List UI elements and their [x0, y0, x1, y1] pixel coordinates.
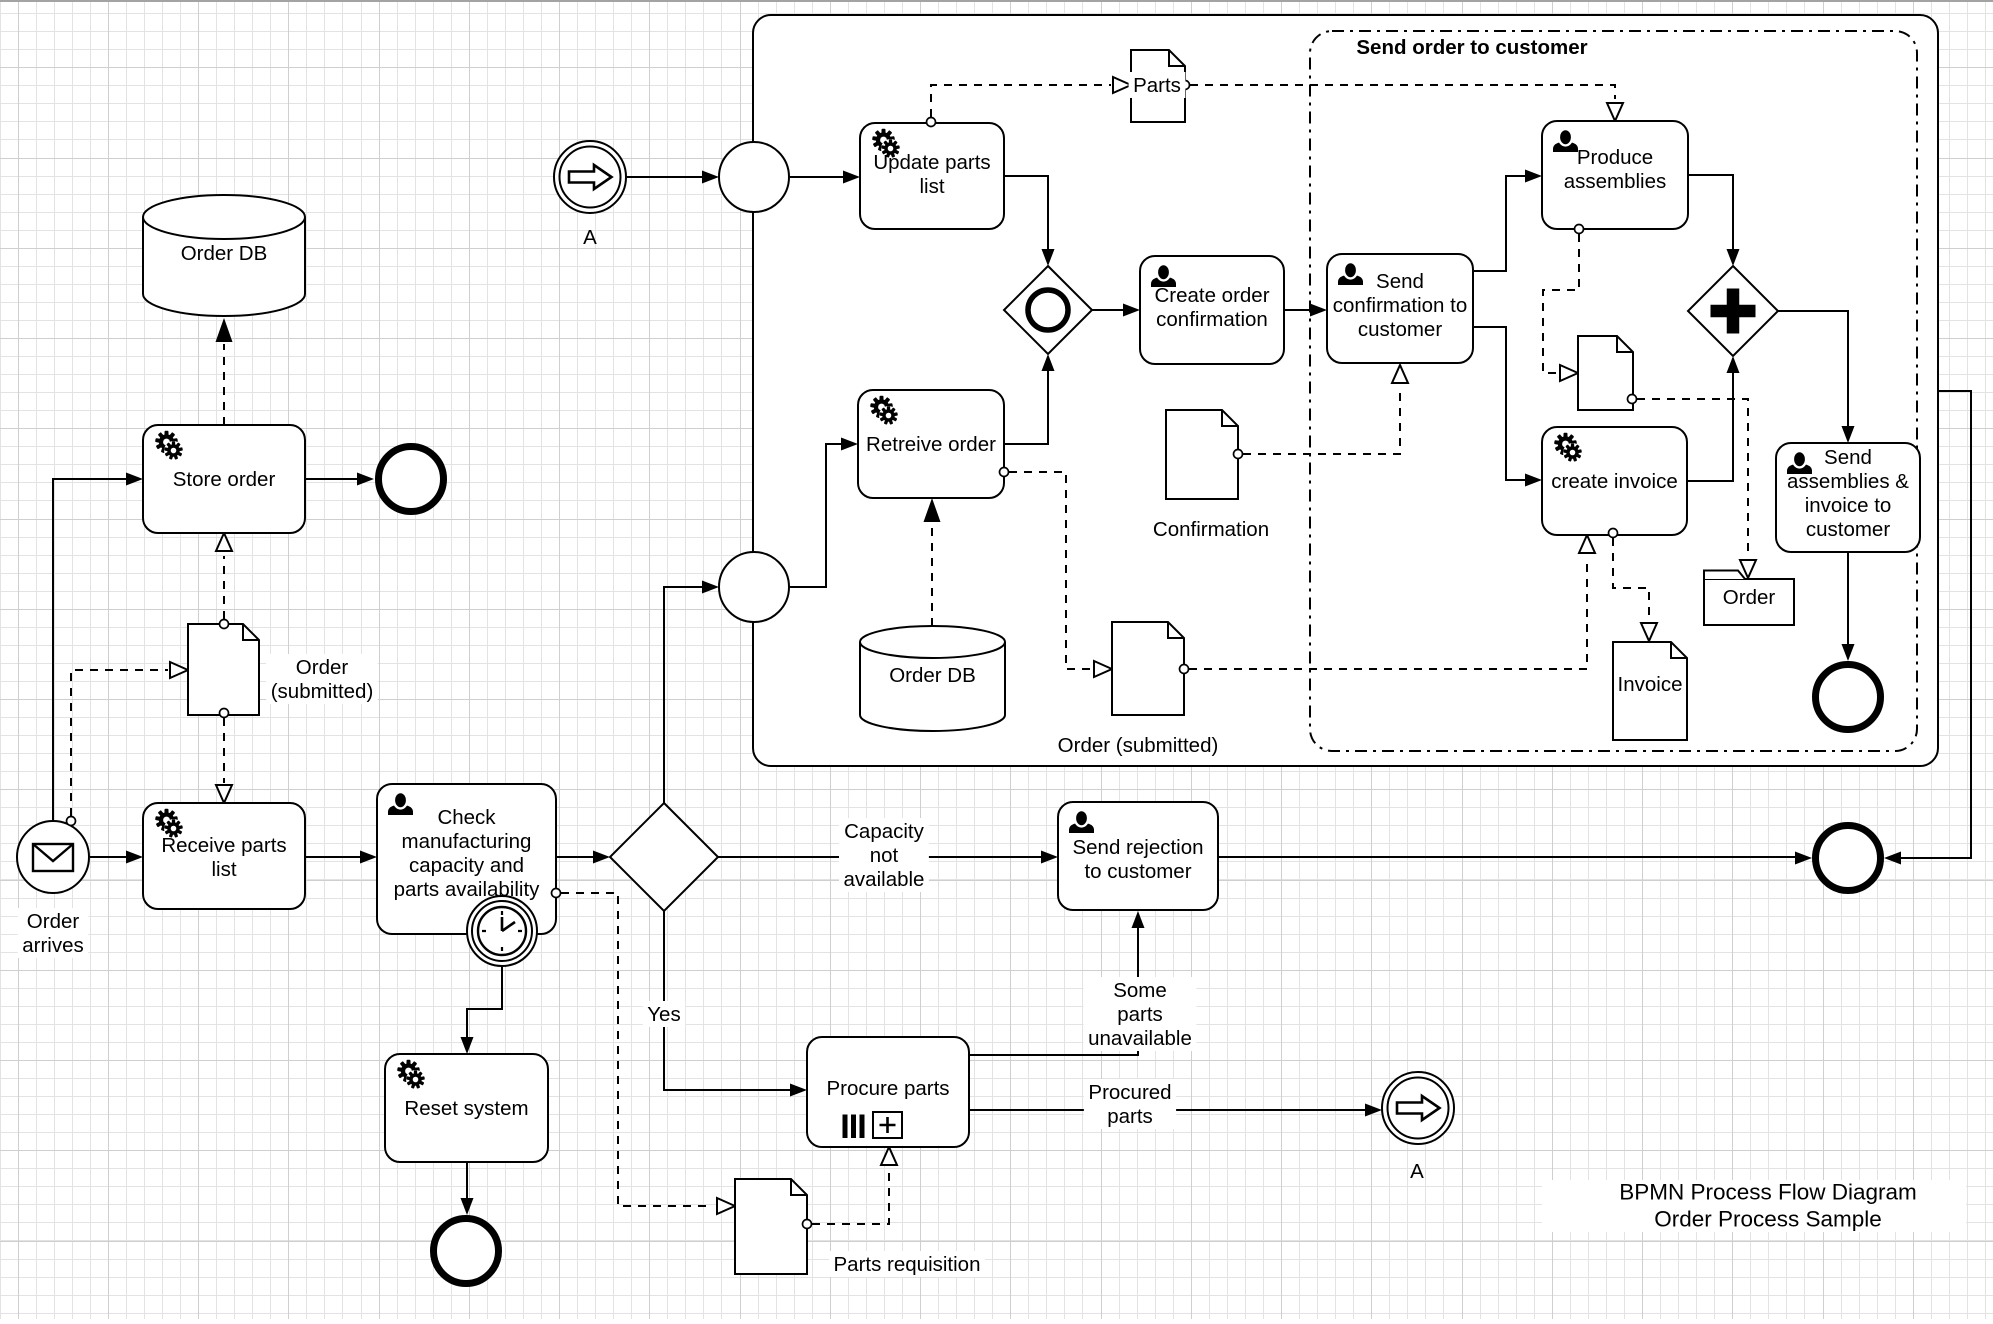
association: Check manufacturing -> Parts requisition — [561, 893, 713, 1206]
subprocess boundary circle 2 — [719, 552, 789, 622]
svg-text:assemblies: assemblies — [1564, 170, 1667, 193]
association: Store order -> Order DB — [223, 344, 225, 425]
svg-text:Send rejection: Send rejection — [1072, 836, 1203, 859]
svg-text:not: not — [870, 844, 899, 867]
svg-text:parts availability: parts availability — [394, 878, 541, 901]
svg-text:Parts requisition: Parts requisition — [834, 1253, 981, 1276]
data store: Order DB left — [143, 195, 305, 316]
svg-text:confirmation to: confirmation to — [1333, 294, 1467, 317]
svg-text:unavailable: unavailable — [1088, 1027, 1192, 1050]
flow: Order arrives -> Store order — [53, 479, 126, 820]
top border line — [0, 0, 1993, 2]
flow: Send assemblies & invoice -> subprocess end event — [1847, 552, 1849, 644]
association: Order (submitted) -> Receive parts list — [223, 718, 225, 783]
flow: Produce assemblies -> parallel gateway — [1688, 175, 1733, 249]
group: Send order to customer — [1310, 31, 1917, 751]
svg-text:Parts: Parts — [1133, 74, 1181, 97]
svg-text:Procure parts: Procure parts — [826, 1077, 949, 1100]
svg-text:Order: Order — [296, 656, 349, 679]
svg-text:(submitted): (submitted) — [271, 680, 374, 703]
task: Update parts list — [860, 123, 1004, 229]
flow: Check manufacturing -> gateway — [556, 856, 593, 858]
svg-text:Send order to customer: Send order to customer — [1356, 36, 1587, 59]
end event: subprocess end — [1816, 665, 1881, 730]
svg-text:invoice to: invoice to — [1805, 494, 1892, 517]
svg-text:assemblies &: assemblies & — [1787, 470, 1909, 493]
svg-text:available: available — [844, 868, 925, 891]
svg-text:Order (submitted): Order (submitted) — [1058, 734, 1219, 757]
flow: circle 2 -> Retreive order — [789, 444, 841, 587]
flow: inclusive gateway -> Create order confirmation — [1092, 309, 1123, 311]
flow: Store order -> end event — [305, 478, 357, 480]
association: Produce assemblies -> unnamed document — [1543, 234, 1579, 373]
svg-text:capacity and: capacity and — [409, 854, 524, 877]
data object: unnamed document — [1578, 336, 1633, 410]
label: Confirmation — [1148, 516, 1273, 542]
task: Produce assemblies — [1542, 121, 1688, 229]
svg-text:Order: Order — [27, 910, 80, 933]
flow: Receive parts list -> Check manufacturing — [305, 856, 360, 858]
svg-text:A: A — [1410, 1160, 1424, 1183]
label: Procured parts — [1084, 1079, 1176, 1129]
data object: Order (submitted) sub — [1112, 622, 1184, 715]
svg-text:Some: Some — [1113, 979, 1167, 1002]
label: Order (submitted) left — [266, 654, 378, 704]
gateway: inclusive (circle) — [1004, 266, 1092, 354]
association: Order (submitted) -> Store order — [223, 556, 225, 619]
svg-text:Confirmation: Confirmation — [1153, 518, 1269, 541]
flow: parallel gateway -> Send assemblies & invoice — [1778, 311, 1848, 426]
svg-text:create invoice: create invoice — [1551, 470, 1677, 493]
gateway: exclusive (empty) — [610, 803, 718, 911]
association: Parts -> Produce assemblies — [1190, 85, 1615, 99]
flow: Procure parts -> link event A (Procured parts) — [969, 1109, 1365, 1111]
data object: Confirmation — [1166, 410, 1238, 499]
svg-text:arrives: arrives — [22, 934, 84, 957]
association: Order DB sub -> Retreive order — [931, 524, 933, 626]
label: Yes — [643, 1001, 685, 1027]
association: unnamed document -> Order folder — [1637, 399, 1748, 556]
association: Confirmation -> Send confirmation — [1243, 387, 1400, 454]
flow: Update parts list -> inclusive gateway — [1004, 176, 1048, 249]
svg-text:list: list — [919, 175, 944, 198]
task: Send assemblies & invoice to customer — [1776, 443, 1920, 552]
svg-text:Order DB: Order DB — [889, 664, 976, 687]
label: Order arrives — [18, 908, 89, 958]
flow: Send confirmation -> Produce assemblies — [1473, 176, 1525, 271]
svg-text:Order: Order — [1723, 586, 1776, 609]
end event: main end — [1816, 826, 1881, 891]
task: Receive parts list — [143, 803, 305, 909]
svg-text:list: list — [211, 858, 236, 881]
svg-text:manufacturing: manufacturing — [402, 830, 532, 853]
association: create invoice -> Invoice — [1613, 538, 1649, 618]
label: Parts — [1129, 72, 1186, 98]
end event: after Store order — [379, 447, 444, 512]
label: Order (submitted) sub — [1053, 732, 1223, 758]
svg-text:customer: customer — [1806, 518, 1890, 541]
flow: Create order confirmation -> Send confirmation — [1284, 309, 1310, 311]
association: Retreive order -> Order (submitted) sub — [1009, 472, 1092, 669]
association: Order (submitted) sub -> create invoice — [1189, 557, 1587, 669]
svg-text:Produce: Produce — [1577, 146, 1653, 169]
task: Check manufacturing capacity and parts availability — [377, 784, 556, 934]
data object: Order folder — [1704, 579, 1794, 625]
end event: after Reset system — [434, 1219, 499, 1284]
flow: create invoice -> parallel gateway — [1687, 373, 1733, 481]
data object: Order (submitted) left — [188, 624, 259, 715]
svg-text:Check: Check — [437, 806, 496, 829]
svg-text:Order DB: Order DB — [181, 242, 268, 265]
svg-text:Retreive order: Retreive order — [866, 433, 996, 456]
flow: Send confirmation -> create invoice — [1473, 327, 1525, 480]
svg-text:Receive parts: Receive parts — [161, 834, 286, 857]
svg-text:Send: Send — [1824, 446, 1872, 469]
svg-text:Reset system: Reset system — [404, 1097, 528, 1120]
flow: Reset system -> end event — [466, 1162, 468, 1198]
label: Parts requisition — [829, 1251, 985, 1277]
link event A (bottom) — [1382, 1072, 1454, 1144]
task: Send rejection to customer — [1058, 802, 1218, 910]
svg-text:Invoice: Invoice — [1618, 673, 1683, 696]
task: Store order — [143, 425, 305, 533]
task: create invoice — [1542, 427, 1687, 535]
label: Capacity not available — [839, 818, 929, 892]
svg-text:confirmation: confirmation — [1156, 308, 1268, 331]
connection dots — [67, 817, 76, 826]
svg-text:Store order: Store order — [173, 468, 276, 491]
flow: circle 1 -> Update parts list — [789, 176, 843, 178]
subprocess boundary circle 1 — [719, 142, 789, 212]
svg-text:Send: Send — [1376, 270, 1424, 293]
svg-text:Capacity: Capacity — [844, 820, 925, 843]
association: Parts requisition -> Procure parts — [812, 1169, 889, 1224]
label: Some parts unavailable — [1084, 977, 1197, 1051]
svg-text:parts: parts — [1107, 1105, 1153, 1128]
flow: subprocess -> main end event — [1901, 391, 1971, 858]
association: Update parts list -> Parts — [931, 85, 1111, 117]
label: title — [1542, 1180, 1966, 1232]
data object: Parts requisition — [735, 1179, 807, 1274]
gateway: parallel (plus) — [1688, 266, 1778, 356]
svg-text:to customer: to customer — [1084, 860, 1191, 883]
task: Procure parts — [807, 1037, 969, 1147]
flow: Procure parts -> Send rejection (Some parts unavailable) — [969, 928, 1138, 1055]
svg-text:Procured: Procured — [1088, 1081, 1171, 1104]
flow: gateway -> Send rejection (Capacity not available) — [718, 856, 1041, 858]
start event: Order arrives (message) — [17, 821, 89, 893]
link event A (top) — [554, 141, 626, 213]
svg-text:Create order: Create order — [1154, 284, 1269, 307]
flow: link event A -> subprocess circle 1 — [626, 176, 702, 178]
svg-text:Yes: Yes — [647, 1003, 680, 1026]
flow: gateway bottom -> Procure parts (Yes) — [664, 911, 790, 1090]
svg-text:BPMN Process Flow Diagram: BPMN Process Flow Diagram — [1619, 1180, 1917, 1205]
data store: Order DB sub — [860, 626, 1005, 731]
boundary timer event — [467, 896, 537, 966]
task: Send confirmation to customer — [1327, 254, 1473, 363]
flow: Retreive order -> inclusive gateway — [1004, 371, 1048, 444]
svg-text:Update parts: Update parts — [873, 151, 990, 174]
flow: timer -> Reset system — [467, 967, 502, 1037]
flow: Order arrives -> Receive parts list — [90, 856, 126, 858]
data object: Parts — [1131, 50, 1185, 122]
sub-process container: expanded subprocess — [753, 15, 1938, 766]
svg-text:customer: customer — [1358, 318, 1442, 341]
flow: gateway top -> subprocess circle 2 — [664, 587, 702, 803]
task: Create order confirmation — [1140, 256, 1284, 364]
svg-text:parts: parts — [1117, 1003, 1163, 1026]
data object: Invoice — [1613, 642, 1687, 740]
task: Retreive order — [858, 390, 1004, 498]
association: Order arrives -> Order (submitted) — [71, 670, 168, 816]
task: Reset system — [385, 1054, 548, 1162]
svg-text:Order Process Sample: Order Process Sample — [1654, 1207, 1882, 1232]
svg-text:A: A — [583, 226, 597, 249]
flow: Send rejection -> main end event — [1218, 856, 1795, 858]
